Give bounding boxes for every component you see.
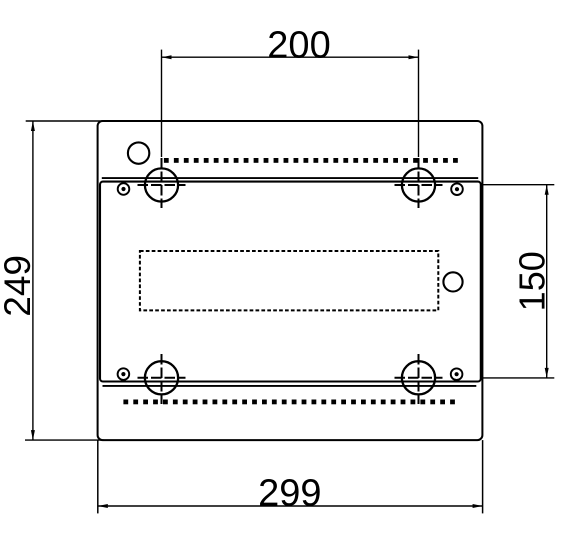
side circle right xyxy=(443,272,462,291)
dim 299 arrow left xyxy=(98,504,108,508)
dim 150 arrow top xyxy=(545,185,549,195)
dim 200 line xyxy=(162,56,419,58)
bottom ventilation dot row xyxy=(123,400,455,405)
dim 249 arrow top xyxy=(31,121,35,131)
dim 200 extension line right xyxy=(418,50,420,157)
door bottom ridge line xyxy=(103,385,477,387)
dim 249 extension tick bottom xyxy=(25,439,104,441)
mounting hole bottom-left xyxy=(145,361,178,394)
dim 200 arrow left xyxy=(162,55,172,59)
dim 200 arrow right xyxy=(409,55,419,59)
dim 299 extension line right xyxy=(482,440,484,513)
mounting hole top-right xyxy=(402,168,435,201)
screw top-right xyxy=(451,183,463,195)
screw bottom-right xyxy=(451,368,463,380)
dim 150 line xyxy=(546,185,548,378)
svg-text:249: 249 xyxy=(0,255,38,317)
centerline cross top-left hole xyxy=(138,158,186,208)
svg-text:299: 299 xyxy=(258,473,321,515)
corner circle top-left xyxy=(128,142,149,163)
dim 200 extension line left xyxy=(161,50,163,157)
dim 299 arrow right xyxy=(473,504,483,508)
dim 299 extension line left xyxy=(97,440,99,513)
door panel outline xyxy=(100,182,481,382)
dim 299 line xyxy=(98,505,483,507)
dim 150 extension line top xyxy=(481,184,554,186)
mounting hole top-left xyxy=(145,168,178,201)
centerline cross bottom-left hole xyxy=(138,354,186,404)
top ventilation dot row xyxy=(164,158,458,163)
screw bottom-left xyxy=(118,368,130,380)
mounting hole bottom-right xyxy=(402,361,435,394)
dim 249 extension tick top xyxy=(26,120,104,122)
svg-text:150: 150 xyxy=(512,251,553,311)
svg-text:200: 200 xyxy=(267,25,330,67)
enclosure outer body xyxy=(98,121,483,440)
dim 150 arrow bottom xyxy=(545,368,549,378)
window cutout dashed rect xyxy=(140,251,438,310)
dim 249 line xyxy=(32,121,34,440)
centerline cross top-right hole xyxy=(395,158,443,208)
dim 150 extension line bottom xyxy=(481,377,554,379)
screw top-left xyxy=(118,183,130,195)
dim 249 arrow bottom xyxy=(31,430,35,440)
door top ridge line xyxy=(102,177,478,179)
centerline cross bottom-right hole xyxy=(395,354,443,404)
